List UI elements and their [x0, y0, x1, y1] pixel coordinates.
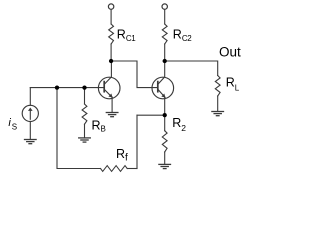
supply terminal (VCC) above R_C2: [162, 4, 167, 9]
svg-text:Rf: Rf: [116, 147, 128, 164]
resistor R_2: [162, 131, 167, 152]
wire i_S bottom: [29, 122, 31, 139]
wire rail to R_B: [84, 88, 86, 104]
current source i_S: [22, 105, 38, 121]
wire Q1 collector node to Q2 base: [111, 61, 158, 88]
resistor R_B: [82, 104, 87, 124]
svg-text:RL: RL: [226, 76, 240, 93]
wire R_L to ground: [217, 96, 219, 111]
svg-text:RB: RB: [92, 119, 106, 134]
transistor Q1: [98, 61, 120, 112]
wire feedback left riser: [57, 88, 101, 169]
wire R_C1 to node: [110, 44, 112, 61]
svg-text:R2: R2: [172, 116, 186, 133]
svg-text:S: S: [12, 123, 17, 132]
resistor R_C1: [109, 24, 114, 44]
supply terminal (VCC) above R_C1: [108, 4, 113, 9]
wire i_S top: [29, 88, 31, 106]
svg-text:Out: Out: [219, 44, 241, 59]
resistor R_C2: [162, 24, 167, 44]
ground (below R_L): [212, 112, 224, 116]
wire input rail (i_S to Q1 base): [30, 87, 104, 89]
wire R_C2 to node: [164, 44, 166, 61]
transistor Q2: [152, 61, 174, 115]
wire terminal2 to R_C2: [164, 9, 166, 24]
wire Q2 collector node to R_L (Out): [165, 61, 218, 76]
svg-text:RC2: RC2: [173, 27, 193, 43]
wire R_2 to ground: [164, 152, 166, 164]
node: rail / R_B junction: [82, 85, 86, 89]
node: rail / feedback junction: [55, 85, 59, 89]
node: R_C1 / Q1 collector junction: [109, 59, 113, 63]
resistor R_L: [215, 76, 220, 97]
node: R_C2 / Q2 collector junction: [163, 59, 167, 63]
ground (below R_B): [79, 138, 91, 142]
svg-text:RC1: RC1: [117, 27, 137, 43]
wire terminal1 to R_C1: [110, 9, 112, 24]
node: Q2 emitter / R_2 / feedback junction: [163, 113, 167, 117]
ground (below i_S): [25, 140, 37, 144]
resistor R_f: [101, 166, 128, 172]
wire riser to Q2 emitter node: [137, 114, 165, 116]
ground (below R_2): [159, 164, 171, 168]
wire feedback right riser: [136, 115, 138, 168]
wire R_f to right riser: [127, 168, 137, 170]
wire R_B to ground: [84, 124, 86, 137]
ground (Q1 emitter): [106, 113, 118, 117]
wire Q2 emitter node to R_2: [164, 115, 166, 131]
